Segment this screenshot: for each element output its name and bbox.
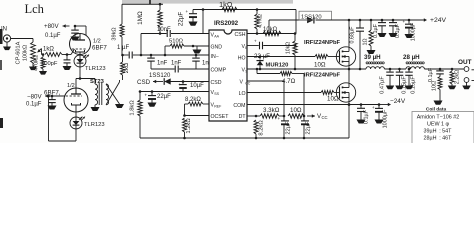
node grid junction bbox=[66, 53, 69, 56]
svg-text:1.2kΩ: 1.2kΩ bbox=[186, 118, 192, 134]
svg-text:100pF: 100pF bbox=[41, 61, 58, 67]
svg-text:8.2kΩ: 8.2kΩ bbox=[259, 120, 265, 136]
left page-edge artifacts bbox=[0, 29, 3, 128]
resistor 1.2k (OCSET to bus) bbox=[183, 118, 193, 140]
svg-text:39µH : 54T: 39µH : 54T bbox=[424, 129, 453, 135]
svg-text:Lch: Lch bbox=[25, 2, 45, 16]
resistor 1k (top rail, label cropped) bbox=[219, 0, 237, 12]
wire VS switch-node line bbox=[247, 68, 366, 71]
capacitor 0.1uF (-80V bypass) bbox=[26, 96, 56, 108]
node filter mid a bbox=[389, 68, 392, 71]
wire VSS line bbox=[140, 91, 209, 93]
svg-text:10Ω: 10Ω bbox=[290, 107, 302, 114]
ground (pot) bbox=[29, 67, 37, 71]
svg-text:+: + bbox=[403, 19, 406, 24]
capacitor 1nF (a) bbox=[147, 55, 167, 69]
svg-text:CSD: CSD bbox=[211, 80, 222, 86]
svg-text:+: + bbox=[186, 9, 189, 14]
svg-text:510Ω: 510Ω bbox=[169, 39, 184, 45]
ground (0.15uF a) bbox=[395, 86, 404, 90]
capacitor 1000uF (-24V bulk) bbox=[372, 103, 389, 128]
svg-text:CSD: CSD bbox=[137, 79, 151, 86]
ground (jack) bbox=[3, 47, 11, 51]
resistor 470k grid leak bbox=[34, 53, 46, 71]
node 10nF branch bbox=[140, 54, 143, 57]
svg-text:MUR120: MUR120 bbox=[266, 63, 289, 69]
svg-text:AA: AA bbox=[214, 35, 219, 39]
wire primary bottom to ground bbox=[94, 105, 96, 107]
svg-text:COMP: COMP bbox=[211, 68, 227, 74]
resistor 8.2k (VREF) bbox=[185, 97, 210, 116]
node IN- 510R branch bbox=[164, 54, 167, 57]
svg-text:OCSET: OCSET bbox=[211, 114, 230, 120]
capacitor 0.1uF (-24V bypass) bbox=[357, 103, 370, 124]
triode V1 1/2 6BF7 (upper) bbox=[70, 34, 108, 55]
svg-text:CSH: CSH bbox=[235, 32, 246, 38]
wire primary top bbox=[94, 79, 96, 85]
volume pot VR1 CP-601A 100k bbox=[16, 41, 44, 64]
ground (22uF VAA) bbox=[189, 22, 198, 26]
wire pot bottom to ground bbox=[32, 63, 34, 67]
title Lch bbox=[25, 2, 45, 16]
svg-text:22µF: 22µF bbox=[178, 12, 185, 26]
ground (bleeder) bbox=[448, 86, 457, 90]
wire node A (LED D1 to transformer primary, V2 plate) bbox=[76, 67, 95, 80]
svg-text:1nF: 1nF bbox=[157, 61, 168, 67]
wire Q1 drain to +24V bbox=[348, 19, 351, 47]
wire Q1 source to switch node bbox=[348, 66, 351, 70]
svg-text:TLR123: TLR123 bbox=[85, 66, 106, 72]
capacitor 0.68uF (rail to switch node) bbox=[350, 19, 365, 71]
capacitor 22uF (Vcc) bbox=[298, 116, 312, 139]
svg-text:10nF: 10nF bbox=[157, 27, 171, 33]
svg-text:Coil data: Coil data bbox=[426, 107, 447, 113]
wire +24V rail (left segment to 1SS120) bbox=[268, 20, 307, 35]
svg-text:DT: DT bbox=[239, 114, 247, 120]
resistor 4.7k (rail to CSH) bbox=[255, 10, 264, 34]
svg-text:0.1µF: 0.1µF bbox=[26, 102, 42, 108]
svg-text:0.15µF: 0.15µF bbox=[402, 76, 408, 94]
wire +80V to V1 plate bbox=[75, 26, 86, 35]
node Vcc junction bbox=[303, 115, 306, 118]
svg-text:+: + bbox=[178, 82, 181, 87]
svg-text:6BF7,: 6BF7, bbox=[44, 90, 61, 97]
diode MUR120 bbox=[256, 55, 288, 70]
svg-text:+: + bbox=[298, 116, 301, 121]
resistor 2k (secondary load) bbox=[121, 55, 131, 80]
capacitor 22uF bootstrap (VB) bbox=[247, 39, 296, 61]
svg-text:10Ω: 10Ω bbox=[432, 81, 438, 91]
capacitor 0.15uF (filter b) bbox=[405, 68, 416, 94]
svg-text:OUT: OUT bbox=[458, 59, 472, 66]
svg-text:1 µF: 1 µF bbox=[117, 45, 129, 51]
svg-text:6BF7: 6BF7 bbox=[92, 45, 107, 52]
resistor 10k (CSH horizontal) bbox=[263, 27, 281, 36]
resistor 4.7R (VS series) bbox=[280, 72, 304, 86]
wire VS tap down bbox=[256, 68, 280, 74]
svg-text:CC: CC bbox=[322, 115, 328, 120]
wire CSH line bbox=[247, 32, 295, 35]
net label CSD bbox=[137, 79, 159, 86]
svg-text:4.7kΩ: 4.7kΩ bbox=[258, 14, 264, 28]
svg-text:CC: CC bbox=[245, 81, 251, 85]
svg-text:1/2: 1/2 bbox=[67, 83, 75, 89]
svg-text:+: + bbox=[278, 116, 281, 121]
svg-text:V: V bbox=[240, 79, 244, 85]
node +80V junction bbox=[74, 25, 77, 28]
wire (feedback line under grey band, x122-163 y4) bbox=[122, 3, 163, 5]
wire feedback trunk x122 bbox=[121, 4, 123, 24]
node 1uF junction bbox=[121, 54, 124, 57]
svg-text:10kΩ: 10kΩ bbox=[286, 42, 292, 54]
LED D2 TLR123 (V2 cathode bias) bbox=[70, 117, 105, 129]
input jack IN bbox=[1, 27, 11, 47]
resistor 510R bbox=[165, 39, 209, 56]
wire 10nF branch vertical bbox=[140, 34, 142, 56]
capacitor 10uF (CSD) bbox=[178, 82, 204, 92]
ground (0.47uF) bbox=[386, 86, 395, 90]
node GND-pin ground branch bbox=[192, 45, 195, 48]
op-amp U1 IRS2092 class-D driver IC bbox=[209, 20, 251, 121]
resistor 1.8k (VSS to bottom bus) bbox=[130, 90, 143, 138]
ground (1R) bbox=[367, 50, 376, 54]
transistor Q2 IRFIZ24NPbF (low side) bbox=[304, 73, 356, 103]
capacitor 0.1uF (+24V bypass b) bbox=[389, 19, 401, 38]
svg-text:REF: REF bbox=[214, 105, 222, 109]
svg-text:1000µF: 1000µF bbox=[411, 22, 417, 41]
svg-text:0.15µF: 0.15µF bbox=[411, 76, 417, 94]
capacitor 0.1uF (+80V bypass) bbox=[45, 26, 79, 39]
svg-text:0.1µF: 0.1µF bbox=[428, 67, 434, 82]
wire filter mid bbox=[384, 68, 406, 70]
node IN- 1nF-a bbox=[150, 54, 153, 57]
svg-text:0.1µF: 0.1µF bbox=[364, 109, 370, 124]
inductor L1 39uH bbox=[364, 54, 384, 69]
supply -80V bbox=[27, 94, 51, 101]
svg-text:2kΩ: 2kΩ bbox=[124, 62, 130, 73]
ground (470k) bbox=[39, 71, 47, 75]
ground (primary) bbox=[91, 107, 100, 111]
ground (+24V 1000uF) bbox=[405, 34, 414, 38]
svg-text:1kΩ: 1kΩ bbox=[219, 0, 233, 9]
svg-text:1MΩ: 1MΩ bbox=[137, 11, 144, 25]
svg-text:28 µH: 28 µH bbox=[403, 54, 420, 61]
capacitor 10nF bbox=[141, 27, 209, 37]
wire -80V to V2 grid bbox=[48, 95, 65, 97]
transformer T1 ST23 bbox=[90, 79, 109, 105]
svg-text:+: + bbox=[254, 39, 257, 44]
svg-text:GND: GND bbox=[211, 45, 223, 51]
svg-text:+: + bbox=[145, 93, 148, 98]
svg-text:1SS120: 1SS120 bbox=[301, 14, 322, 20]
svg-text:0.1µF: 0.1µF bbox=[373, 23, 379, 38]
net label Vcc bbox=[307, 113, 328, 120]
resistor 10R (Zobel) bbox=[432, 77, 443, 101]
resistor 10k (VB to VS vertical) bbox=[286, 41, 298, 69]
svg-text:IRS2092: IRS2092 bbox=[214, 20, 239, 27]
svg-text:Amidon T−106 #2: Amidon T−106 #2 bbox=[417, 115, 460, 121]
ground (+24V 0.1uF b) bbox=[389, 33, 398, 37]
node CSH/VB trunk bbox=[294, 32, 297, 35]
svg-text:39kΩ: 39kΩ bbox=[112, 27, 118, 40]
capacitor 100pF bbox=[41, 55, 71, 68]
svg-text:1.8kΩ: 1.8kΩ bbox=[130, 100, 136, 116]
svg-text:470kΩ: 470kΩ bbox=[34, 55, 40, 71]
svg-text:0.47µF: 0.47µF bbox=[380, 76, 386, 94]
LED D1 TLR123 (V1 cathode bias) bbox=[74, 55, 106, 72]
svg-text:UEW 1 φ: UEW 1 φ bbox=[427, 122, 450, 128]
svg-text:IRFIZ24NPbF: IRFIZ24NPbF bbox=[304, 73, 341, 79]
coil data note box bbox=[412, 107, 474, 144]
wire top rail bbox=[193, 9, 296, 11]
capacitor 22uF (VAA bypass) bbox=[178, 9, 198, 26]
inductor L2 28uH bbox=[403, 54, 424, 69]
ground (0.15uF b) bbox=[405, 86, 414, 90]
svg-text:10kΩ: 10kΩ bbox=[263, 27, 278, 33]
resistor 10R (HO gate) bbox=[247, 55, 336, 69]
svg-text:8.2kΩ: 8.2kΩ bbox=[185, 97, 201, 103]
svg-text:10µF: 10µF bbox=[190, 83, 204, 89]
svg-text:IN: IN bbox=[1, 27, 7, 33]
wire V1 cathode to LED D1 bbox=[79, 54, 81, 57]
node VSS 22uF branch bbox=[151, 90, 154, 93]
ground (Zobel) bbox=[434, 101, 443, 105]
svg-text:IRFIZ24NPbF: IRFIZ24NPbF bbox=[304, 40, 341, 46]
svg-text:HO: HO bbox=[238, 55, 246, 61]
svg-text:CP-601A: CP-601A bbox=[16, 41, 22, 64]
capacitor 0.1uF (Zobel) bbox=[428, 67, 444, 82]
wire x304 vertical (to Vcc node) bbox=[303, 74, 305, 117]
svg-text:−24V: −24V bbox=[390, 98, 406, 105]
svg-text:22µF: 22µF bbox=[286, 121, 292, 134]
wire Q2 source to -24V rail bbox=[348, 102, 351, 106]
wire filter out bbox=[424, 68, 464, 70]
node DT mid bbox=[283, 115, 286, 118]
svg-text:1Ω: 1Ω bbox=[363, 38, 369, 45]
net label +24V bbox=[420, 17, 447, 24]
ground (GND pin) bbox=[193, 46, 202, 54]
output terminal OUT- and ground bbox=[462, 78, 474, 90]
output terminal OUT+ bbox=[458, 59, 474, 71]
svg-text:10Ω: 10Ω bbox=[327, 96, 339, 103]
wire (cropped vertical tick at x150) bbox=[149, 0, 151, 4]
svg-text:ST23: ST23 bbox=[90, 79, 105, 85]
triode V2 1/2 6BF7 (lower) bbox=[44, 83, 88, 112]
wire COM / -24V rail bbox=[247, 104, 379, 106]
ground (+24V 0.1uF a) bbox=[378, 33, 387, 37]
capacitor 0.15uF (filter a) bbox=[396, 69, 408, 94]
resistor 2.2k (output bleeder) bbox=[450, 68, 461, 86]
svg-text:1SS120: 1SS120 bbox=[149, 73, 171, 79]
ground (-24V 0.1uF) bbox=[357, 120, 366, 124]
wire grid to tube V1 bbox=[67, 49, 75, 55]
wire LED D2 return to -80V rail bbox=[47, 95, 76, 141]
net label -24V bbox=[379, 98, 406, 106]
svg-text:2.2kΩ: 2.2kΩ bbox=[455, 70, 461, 85]
node IN- 1nF-b bbox=[195, 54, 198, 57]
capacitor 1000uF (+24V bulk) bbox=[403, 19, 417, 42]
capacitor 22uF (DT mid) bbox=[278, 116, 292, 139]
node -80V junction bbox=[51, 95, 54, 98]
svg-text:+24V: +24V bbox=[430, 17, 447, 24]
resistor 1k grid stopper bbox=[43, 47, 67, 57]
svg-text:22µF: 22µF bbox=[306, 121, 312, 134]
resistor 10R (DT to Vcc) bbox=[288, 107, 304, 118]
wire V2 plate to node A bbox=[75, 79, 77, 89]
transistor Q1 IRFIZ24NPbF (high side) bbox=[304, 40, 356, 66]
wire +24V rail bbox=[345, 19, 424, 21]
wire secondary cross-connect bbox=[106, 80, 120, 105]
wire IN- line to IC bbox=[141, 54, 209, 56]
resistor 1R (snubber) bbox=[363, 19, 374, 50]
diode 1SS120 (CSH clamp to +24V) bbox=[299, 11, 345, 23]
wire VCC pin drop to DT mid bbox=[247, 81, 284, 116]
wire Q2 drain to switch node bbox=[348, 69, 350, 83]
ground (secondary) bbox=[115, 104, 124, 108]
svg-text:10Ω: 10Ω bbox=[314, 62, 326, 69]
wire trunk x295 bbox=[295, 10, 296, 42]
resistor 10R (LO gate) bbox=[247, 91, 339, 103]
ground (-24V 1000uF) bbox=[375, 120, 384, 124]
svg-text:0.1µF: 0.1µF bbox=[45, 33, 61, 39]
wire bottom bus bbox=[140, 137, 349, 139]
capacitor 1uF input coupling bbox=[117, 45, 141, 59]
svg-text:+80V: +80V bbox=[44, 23, 59, 30]
svg-text:39 µH: 39 µH bbox=[364, 54, 381, 61]
svg-text:+: + bbox=[372, 105, 375, 110]
resistor 8.2k (DT to bus) bbox=[254, 120, 265, 140]
svg-text:SS: SS bbox=[214, 92, 219, 96]
svg-text:28µH : 46T: 28µH : 46T bbox=[424, 136, 453, 142]
capacitor 0.47uF (filter) bbox=[380, 69, 394, 94]
wire V2 cathode to LED D2 bbox=[75, 112, 77, 117]
resistor 39k (feedback) bbox=[112, 24, 125, 55]
diode 1SS120 (CSD) bbox=[149, 73, 209, 85]
wire OCSET bbox=[183, 114, 209, 117]
svg-text:1000µF: 1000µF bbox=[383, 109, 389, 128]
svg-text:IN−: IN− bbox=[211, 54, 219, 60]
supply +80V bbox=[44, 23, 70, 30]
capacitor 1nF (c) series in COMP line bbox=[151, 61, 209, 73]
svg-text:1nF: 1nF bbox=[171, 61, 182, 67]
ground (22uF VSS) bbox=[148, 103, 157, 107]
svg-text:3.3kΩ: 3.3kΩ bbox=[263, 107, 280, 114]
node filter mid b bbox=[398, 68, 401, 71]
svg-text:−80V: −80V bbox=[27, 94, 42, 101]
node CSD cap junction bbox=[182, 80, 185, 83]
capacitor 1nF (b) bbox=[192, 55, 212, 69]
svg-text:1kΩ: 1kΩ bbox=[43, 47, 54, 53]
resistor 1M bbox=[137, 3, 162, 35]
wire VAA riser bbox=[202, 8, 205, 33]
scan-artifact grey band (cropped content at top edge) bbox=[122, 0, 293, 4]
capacitor 22uF (VSS bypass) bbox=[145, 92, 172, 103]
ground (100pF) bbox=[63, 66, 72, 70]
ground (+80V bypass) bbox=[71, 37, 80, 41]
svg-text:TLR123: TLR123 bbox=[84, 122, 105, 128]
resistor 3.3k (DT) bbox=[256, 107, 284, 118]
svg-text:COM: COM bbox=[233, 103, 245, 109]
wire bottom bus riser to -24V rail bbox=[348, 103, 351, 138]
svg-text:0.68µF: 0.68µF bbox=[350, 26, 356, 44]
ground (-80V bypass) bbox=[48, 106, 57, 110]
node top rail 4.7k branch bbox=[256, 8, 259, 11]
svg-text:22µF: 22µF bbox=[157, 94, 171, 100]
wire DT line bbox=[247, 115, 257, 118]
svg-text:LO: LO bbox=[239, 91, 246, 97]
capacitor 0.1uF (+24V bypass a) bbox=[373, 19, 386, 38]
svg-text:100kΩ: 100kΩ bbox=[23, 45, 29, 61]
wire jack to volume pot bbox=[11, 39, 33, 43]
